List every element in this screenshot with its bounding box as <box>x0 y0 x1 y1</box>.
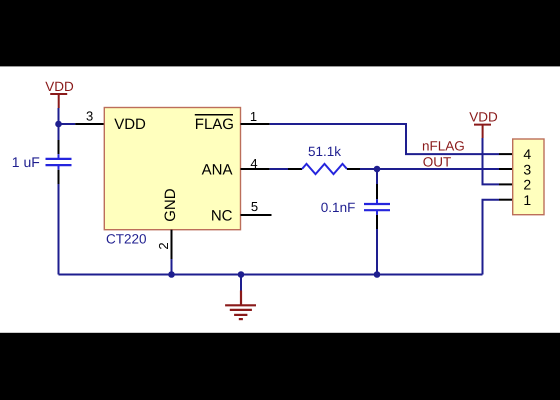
svg-text:GND: GND <box>162 188 179 222</box>
capacitor C2 0.1nF <box>364 184 390 229</box>
svg-text:0.1nF: 0.1nF <box>321 200 356 215</box>
FLAG overline <box>195 114 233 116</box>
wire R1 to OUT net <box>360 168 499 170</box>
capacitor C1 1 uF <box>46 140 72 184</box>
svg-text:3: 3 <box>523 161 531 177</box>
wire nFLAG net (pin1 to connector pin 4) <box>270 124 499 154</box>
svg-text:51.1k: 51.1k <box>308 144 341 159</box>
svg-text:2: 2 <box>156 242 171 249</box>
node R1/C2 junction <box>374 166 381 173</box>
svg-text:1: 1 <box>250 109 257 124</box>
node GND pin junction <box>168 271 175 278</box>
wire rail to connector pin 1 <box>483 200 500 275</box>
power symbol VDD (left) <box>50 94 67 108</box>
wire rail to ground symbol <box>240 275 242 291</box>
connector J1 pin 4 stub <box>499 153 513 155</box>
connector J1 body <box>513 139 544 215</box>
connector J1 pin 3 stub <box>499 168 513 170</box>
svg-text:CT220: CT220 <box>106 232 147 247</box>
svg-text:OUT: OUT <box>423 154 452 169</box>
svg-text:ANA: ANA <box>202 161 233 178</box>
svg-text:4: 4 <box>523 146 531 162</box>
svg-text:4: 4 <box>250 156 257 171</box>
connector J1 pin 1 stub <box>499 199 513 201</box>
node ground symbol junction <box>238 271 245 278</box>
wire VDD to connector pin 2 <box>483 138 500 184</box>
svg-text:VDD: VDD <box>114 116 146 133</box>
svg-text:1 uF: 1 uF <box>12 154 40 170</box>
wire C2 to rail <box>376 229 378 275</box>
svg-text:nFLAG: nFLAG <box>422 139 465 154</box>
wire node A to pin 3 <box>59 123 76 125</box>
svg-text:2: 2 <box>523 177 531 193</box>
svg-text:VDD: VDD <box>469 109 498 124</box>
svg-text:FLAG: FLAG <box>195 116 234 133</box>
pin 5 stub of U1 <box>241 214 272 216</box>
node C2/rail junction <box>374 271 381 278</box>
pin 1 stub of U1 <box>241 123 270 125</box>
wire C1 to ground rail <box>58 184 60 275</box>
connector J1 pin 2 stub <box>499 183 513 185</box>
power symbol VDD (right) <box>474 125 491 138</box>
svg-text:NC: NC <box>211 207 233 224</box>
pin 4 stub of U1 <box>241 168 270 170</box>
wire junction to C2 <box>376 169 378 184</box>
wire VDD to node A <box>58 108 60 124</box>
svg-text:5: 5 <box>251 199 258 214</box>
node A (VDD / C1 / pin3 junction) <box>55 121 62 128</box>
svg-text:3: 3 <box>86 109 93 124</box>
svg-text:VDD: VDD <box>45 79 74 94</box>
resistor R1 51.1k <box>288 164 360 174</box>
wire node A to C1 <box>58 124 60 140</box>
pin 2 (GND) stub of U1 <box>171 230 173 259</box>
svg-text:1: 1 <box>523 192 531 208</box>
IC U1 CT220 body <box>104 108 240 230</box>
wire pin 4 to R1 <box>270 168 288 170</box>
ground <box>225 291 256 320</box>
wire ground rail <box>59 274 483 276</box>
wire GND pin to rail <box>171 259 173 275</box>
pin 3 stub of U1 <box>75 123 104 125</box>
